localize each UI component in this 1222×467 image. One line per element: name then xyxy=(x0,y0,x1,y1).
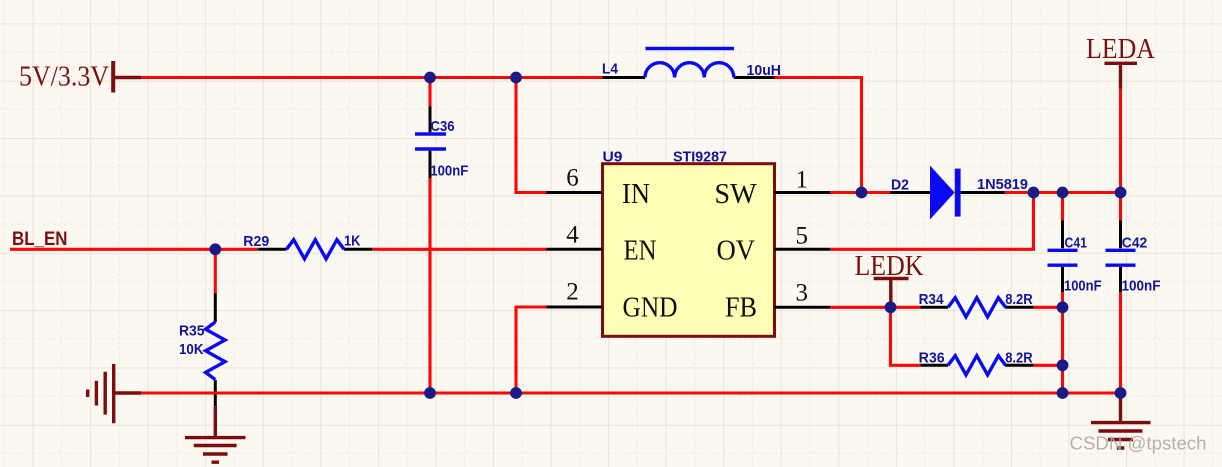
ic U9 box xyxy=(603,164,775,337)
junction C41 bottom xyxy=(1057,387,1069,399)
svg-text:OV: OV xyxy=(717,236,756,267)
wire R36 right xyxy=(1034,364,1063,367)
capacitor C36 xyxy=(415,78,446,179)
wire C36 to bottom rail xyxy=(428,178,431,393)
capacitor C42 xyxy=(1106,193,1136,293)
junction FB LEDK xyxy=(885,301,897,313)
junction C41 top xyxy=(1057,187,1069,199)
wire BL_EN xyxy=(10,248,258,251)
svg-text:1: 1 xyxy=(796,167,809,194)
pin 5 xyxy=(775,248,831,251)
svg-text:STI9287: STI9287 xyxy=(673,149,727,166)
wire L4 to SW corner xyxy=(775,78,862,193)
ground left xyxy=(88,364,141,423)
svg-text:FB: FB xyxy=(725,293,757,324)
junction C36 bottom xyxy=(424,387,436,399)
svg-text:100nF: 100nF xyxy=(1064,277,1102,294)
svg-text:3: 3 xyxy=(796,279,809,306)
wire OV to node xyxy=(830,193,1034,250)
svg-text:5V/3.3V: 5V/3.3V xyxy=(19,60,109,92)
wire C42 bottom xyxy=(1119,292,1122,393)
wire C41 bottom xyxy=(1061,292,1064,393)
resistor R35 xyxy=(206,294,225,407)
junction BL_EN R35 xyxy=(209,243,221,255)
wire LEDA riser xyxy=(1119,89,1122,193)
pin 1 xyxy=(775,191,831,194)
svg-text:GND: GND xyxy=(623,293,678,324)
wire R36 branch xyxy=(891,307,921,365)
svg-text:BL_EN: BL_EN xyxy=(12,229,68,250)
svg-text:D2: D2 xyxy=(891,177,909,194)
port LEDA xyxy=(1086,33,1155,89)
wire GND pin riser xyxy=(516,307,547,393)
svg-text:8.2R: 8.2R xyxy=(1005,350,1033,367)
svg-text:2: 2 xyxy=(566,278,579,305)
inductor L4 xyxy=(603,49,775,78)
ground right xyxy=(1091,393,1151,448)
junction R34 C41 xyxy=(1057,301,1069,313)
wire 5V rail xyxy=(141,76,603,79)
wire diode out xyxy=(1005,191,1121,194)
pin 2 xyxy=(547,306,603,309)
svg-text:R36: R36 xyxy=(919,350,945,367)
wire bottom rail xyxy=(141,391,1121,394)
capacitor C41 xyxy=(1048,193,1078,293)
junction SW node xyxy=(856,187,868,199)
svg-text:LEDA: LEDA xyxy=(1086,33,1155,65)
svg-text:C36: C36 xyxy=(431,118,455,135)
junction C42 top xyxy=(1115,187,1127,199)
junction OV node xyxy=(1028,187,1040,199)
junction C36 top xyxy=(424,72,436,84)
svg-text:100nF: 100nF xyxy=(430,162,468,179)
diode D2 xyxy=(890,166,1005,220)
svg-text:CSDN @tpstech: CSDN @tpstech xyxy=(1070,433,1207,454)
resistor R34 xyxy=(920,298,1033,317)
svg-text:10K: 10K xyxy=(179,341,204,358)
svg-text:4: 4 xyxy=(566,221,579,248)
svg-text:R34: R34 xyxy=(919,291,945,308)
svg-text:U9: U9 xyxy=(603,149,623,166)
svg-text:L4: L4 xyxy=(602,61,619,78)
junction GND riser bottom xyxy=(510,387,522,399)
ground below R35 xyxy=(185,406,246,462)
svg-text:1K: 1K xyxy=(344,233,361,250)
svg-text:EN: EN xyxy=(624,236,657,267)
wire R35 riser xyxy=(214,249,217,293)
svg-text:100nF: 100nF xyxy=(1122,277,1161,294)
wire FB to node xyxy=(830,306,920,309)
wire pin1 to diode xyxy=(830,191,890,194)
svg-text:6: 6 xyxy=(566,165,579,192)
port 5V/3.3V xyxy=(19,60,141,92)
junction R36 C41 xyxy=(1057,359,1069,371)
svg-text:1N5819: 1N5819 xyxy=(977,176,1028,193)
resistor R29 xyxy=(258,240,372,259)
junction C42 bottom xyxy=(1115,387,1127,399)
svg-text:C41: C41 xyxy=(1065,235,1088,252)
svg-text:SW: SW xyxy=(715,179,758,210)
pin 4 xyxy=(547,248,603,251)
svg-text:5: 5 xyxy=(796,222,809,249)
port LEDK xyxy=(855,250,924,308)
resistor R36 xyxy=(920,356,1033,375)
svg-text:R35: R35 xyxy=(179,323,205,340)
svg-text:IN: IN xyxy=(622,179,650,210)
wire R34 right xyxy=(1034,306,1063,309)
pin 3 xyxy=(775,306,831,309)
svg-text:8.2R: 8.2R xyxy=(1005,291,1033,308)
svg-text:R29: R29 xyxy=(243,233,269,250)
pin 6 xyxy=(547,191,603,194)
svg-text:C42: C42 xyxy=(1122,235,1148,252)
junction IN riser xyxy=(510,72,522,84)
wire IN riser xyxy=(516,78,547,193)
wire R29 to EN pin xyxy=(372,248,547,251)
